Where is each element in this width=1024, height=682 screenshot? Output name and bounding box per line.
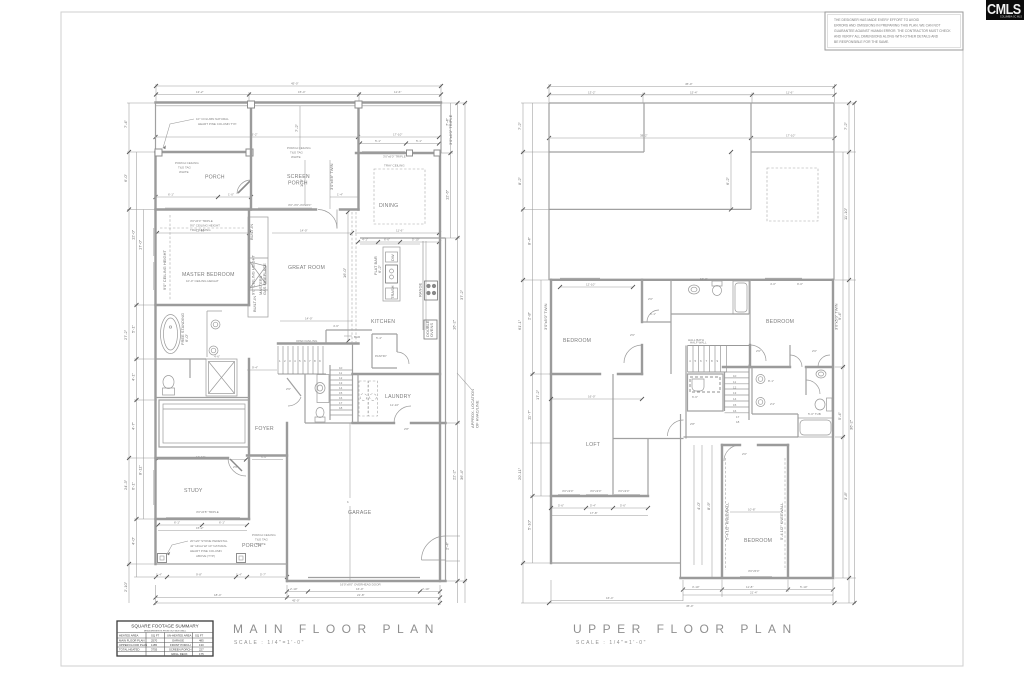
- svg-text:OPEN RAILING: OPEN RAILING: [296, 339, 318, 343]
- svg-text:13: 13: [339, 381, 343, 385]
- bar label: [326, 330, 372, 344]
- svg-text:17'-10": 17'-10": [786, 134, 795, 138]
- entry door arc: [318, 210, 337, 229]
- svg-text:4'-7": 4'-7": [131, 421, 136, 430]
- screen porch left wall: [248, 101, 255, 210]
- svg-text:15'-4": 15'-4": [298, 90, 306, 94]
- svg-text:20"x20" STONE PEDESTAL: 20"x20" STONE PEDESTAL: [190, 539, 228, 543]
- svg-text:2'-8": 2'-8": [527, 311, 532, 320]
- svg-text:11'-10": 11'-10": [843, 207, 848, 220]
- svg-text:61'-1": 61'-1": [517, 319, 522, 330]
- svg-text:7'-2": 7'-2": [517, 121, 522, 130]
- svg-text:AND VERIFY ALL DIMENSIONS ALON: AND VERIFY ALL DIMENSIONS ALONG WITH OTH…: [834, 35, 939, 39]
- screenporch vertical dims: [294, 106, 334, 209]
- svg-text:6'-1": 6'-1": [168, 193, 174, 197]
- svg-text:3'0"x6'8" TRIPLE: 3'0"x6'8" TRIPLE: [196, 510, 219, 514]
- garage bottom dims: [154, 585, 443, 605]
- svg-text:45'-0": 45'-0": [685, 82, 693, 86]
- svg-text:4'-0": 4'-0": [131, 536, 136, 545]
- svg-text:12: 12: [733, 385, 737, 389]
- svg-text:DW: DW: [390, 254, 395, 261]
- svg-text:130: 130: [199, 643, 204, 647]
- svg-text:15'-2": 15'-2": [196, 526, 204, 530]
- svg-text:3'0"x6'0" TRIPLE: 3'0"x6'0" TRIPLE: [190, 219, 213, 223]
- svg-text:3'0"x5'0" TWIN: 3'0"x5'0" TWIN: [543, 303, 548, 330]
- dim 38'-2" / 17'-10": [547, 134, 837, 141]
- svg-text:5'-10": 5'-10": [527, 519, 532, 530]
- svg-text:21'-8": 21'-8": [357, 593, 365, 597]
- svg-text:45'-0": 45'-0": [292, 599, 300, 603]
- svg-text:17: 17: [736, 415, 740, 419]
- screen porch right wall: [355, 101, 362, 210]
- svg-text:2'4": 2'4": [770, 402, 775, 406]
- svg-text:10: 10: [339, 366, 343, 370]
- svg-text:5'-4 1/2" KNEEWALL: 5'-4 1/2" KNEEWALL: [779, 502, 784, 540]
- bottom bedroom: [681, 445, 834, 578]
- svg-text:WHITE: WHITE: [179, 170, 189, 174]
- svg-text:MAIN FLOOR PLAN: MAIN FLOOR PLAN: [233, 622, 440, 636]
- svg-text:PORCH CEILING: PORCH CEILING: [175, 161, 199, 165]
- svg-text:11'-6": 11'-6": [786, 90, 793, 94]
- master bedroom bottom wall: [156, 304, 250, 306]
- master bedroom ceiling dashed: [160, 215, 256, 300]
- master bedroom right wall: [248, 210, 250, 456]
- powder room: [247, 366, 353, 424]
- svg-text:11: 11: [339, 371, 342, 375]
- svg-text:14: 14: [733, 397, 737, 401]
- svg-text:SCALE : 1/4"=1'-0": SCALE : 1/4"=1'-0": [576, 640, 647, 646]
- svg-text:SCALE : 1/4"=1'-0": SCALE : 1/4"=1'-0": [234, 640, 305, 646]
- svg-text:6'-0": 6'-0": [184, 333, 189, 342]
- svg-text:1'-0": 1'-0": [228, 193, 234, 197]
- upper floor plan title: [573, 622, 798, 646]
- svg-text:5'-1": 5'-1": [416, 139, 422, 143]
- roof outline: [549, 103, 835, 280]
- dining tray ceiling dashed: [374, 164, 425, 225]
- svg-text:OF HVAC/LINE: OF HVAC/LINE: [475, 400, 480, 428]
- kitchen island: [373, 247, 400, 301]
- window marks master bedroom left wall: [153, 228, 155, 256]
- svg-text:3'0"x5'0": 3'0"x5'0": [748, 569, 759, 573]
- pantry: [372, 334, 409, 368]
- svg-text:SCREEN PORCH: SCREEN PORCH: [169, 648, 192, 652]
- svg-text:PORCH CEILING: PORCH CEILING: [252, 533, 276, 537]
- svg-text:37'-2": 37'-2": [459, 289, 464, 300]
- kitchen/dining wall: [360, 237, 446, 239]
- svg-text:16'0"x8'0" OVERHEAD DOOR: 16'0"x8'0" OVERHEAD DOOR: [340, 583, 381, 587]
- svg-text:MASTER BEDROOM: MASTER BEDROOM: [182, 272, 235, 278]
- svg-text:16'-0": 16'-0": [588, 395, 596, 399]
- loft: [551, 442, 648, 496]
- svg-text:UPPER FLOOR PLAN: UPPER FLOOR PLAN: [573, 622, 798, 636]
- svg-text:12: 12: [339, 376, 343, 380]
- free standing tub: [161, 313, 190, 354]
- top right closet: [790, 345, 830, 367]
- svg-text:PORCH CEILING: PORCH CEILING: [287, 146, 311, 150]
- svg-text:8'-4": 8'-4": [527, 236, 532, 245]
- svg-text:PORCH: PORCH: [288, 181, 308, 187]
- svg-text:GREAT ROOM: GREAT ROOM: [288, 265, 325, 271]
- approx location hvac note: [457, 373, 480, 428]
- svg-text:BUILT-IN: BUILT-IN: [249, 224, 254, 240]
- svg-text:10'-0" CEILING HEIGHT: 10'-0" CEILING HEIGHT: [186, 279, 219, 283]
- stairs lower run: [330, 344, 353, 424]
- svg-text:17: 17: [339, 401, 343, 405]
- svg-text:175: 175: [199, 652, 204, 656]
- svg-text:17'-8": 17'-8": [590, 511, 598, 515]
- svg-text:GRILL DECK: GRILL DECK: [171, 652, 188, 656]
- svg-text:27'-2": 27'-2": [123, 329, 128, 340]
- bedroom 1 walls: [551, 280, 642, 374]
- svg-text:9'0" CEILING HEIGHT: 9'0" CEILING HEIGHT: [162, 249, 167, 290]
- svg-text:45'-0": 45'-0": [686, 604, 694, 608]
- svg-text:3'0"x6'0" TRIPLE: 3'0"x6'0" TRIPLE: [383, 155, 406, 159]
- svg-text:11: 11: [733, 380, 736, 384]
- svg-text:TRASH: TRASH: [390, 285, 395, 299]
- svg-text:LAUNDRY: LAUNDRY: [385, 394, 411, 400]
- svg-text:8'-9": 8'-9": [706, 501, 711, 510]
- svg-text:485: 485: [199, 639, 204, 643]
- svg-text:14'-0": 14'-0": [300, 229, 308, 233]
- great room vertical dim: [342, 210, 350, 343]
- svg-text:5'-0" TUB: 5'-0" TUB: [808, 412, 821, 416]
- top wall: [156, 101, 442, 103]
- svg-text:7'-2": 7'-2": [294, 123, 299, 132]
- svg-text:11'-10": 11'-10": [390, 403, 399, 407]
- porch ceiling note left: [175, 161, 199, 174]
- right vertical dim tiers: [835, 101, 857, 605]
- bedroom band top wall: [551, 278, 833, 280]
- svg-text:FRONT PORCH: FRONT PORCH: [170, 643, 190, 647]
- svg-text:SCREEN: SCREEN: [287, 174, 310, 180]
- svg-text:3'0"x3'0": 3'0"x3'0": [590, 489, 601, 493]
- svg-text:5'-1": 5'-1": [131, 324, 136, 333]
- svg-text:TRAY CEILING: TRAY CEILING: [190, 228, 211, 232]
- svg-text:9'-8": 9'-8": [196, 573, 202, 577]
- svg-text:9'0" CEILING HEIGHT: 9'0" CEILING HEIGHT: [190, 224, 220, 228]
- svg-text:22'-2": 22'-2": [452, 469, 457, 480]
- study bottom dims: [156, 521, 249, 531]
- svg-text:HEART PINE COLUMN TYP.: HEART PINE COLUMN TYP.: [198, 122, 237, 126]
- svg-text:LOFT: LOFT: [586, 442, 601, 448]
- stairs upper: [688, 341, 750, 373]
- svg-text:20'-11": 20'-11": [517, 467, 522, 480]
- svg-text:3'0"x3'0": 3'0"x3'0": [618, 489, 629, 493]
- svg-text:STUDY: STUDY: [184, 488, 203, 494]
- right outer wall: [832, 280, 834, 578]
- svg-text:7'-4": 7'-4": [123, 119, 128, 128]
- svg-text:6'-1": 6'-1": [219, 521, 225, 525]
- svg-text:45'-0": 45'-0": [291, 82, 299, 86]
- hall walls: [613, 346, 695, 497]
- outer walls: [156, 103, 446, 582]
- bedroom1 dims: [558, 283, 635, 290]
- svg-text:16: 16: [339, 396, 343, 400]
- svg-text:ABOVE (TYP): ABOVE (TYP): [196, 554, 215, 558]
- svg-text:15: 15: [733, 403, 737, 407]
- svg-text:6'-6": 6'-6": [692, 395, 698, 399]
- svg-text:4'-1": 4'-1": [131, 372, 136, 381]
- svg-text:2'8": 2'8": [690, 422, 695, 426]
- svg-text:2'-10": 2'-10": [123, 581, 128, 592]
- roof overhang lines: [156, 105, 442, 107]
- svg-text:TRAY CEILING: TRAY CEILING: [384, 164, 405, 168]
- svg-text:12'-0": 12'-0": [131, 229, 136, 240]
- built-in / fireplace block: [248, 217, 268, 317]
- svg-text:12'-6": 12'-6": [445, 189, 450, 200]
- toilet room right: [806, 367, 832, 411]
- svg-text:7'-2": 7'-2": [843, 121, 848, 130]
- study: [156, 458, 250, 519]
- svg-text:1'-4": 1'-4": [337, 193, 343, 197]
- svg-text:18: 18: [339, 406, 343, 410]
- left outer wall bedroom band: [550, 280, 552, 563]
- svg-text:HALL BATH: HALL BATH: [688, 338, 704, 342]
- svg-text:9'-4": 9'-4": [837, 311, 842, 320]
- svg-text:HEART PINE COLUMN: HEART PINE COLUMN: [190, 549, 222, 553]
- square footage summary table: [117, 621, 213, 656]
- svg-text:18'-4": 18'-4": [214, 593, 222, 597]
- svg-text:3'-8": 3'-8": [843, 491, 848, 500]
- svg-text:T&G TAG: T&G TAG: [178, 166, 192, 170]
- porch dim line y197: [154, 193, 359, 200]
- svg-text:10" COLUMN NATURAL: 10" COLUMN NATURAL: [196, 117, 229, 121]
- svg-text:SQUARE FOOTAGE SUMMARY: SQUARE FOOTAGE SUMMARY: [131, 624, 198, 629]
- svg-text:36'-4": 36'-4": [459, 469, 464, 480]
- svg-text:MEASUREMENTS FROM OUTSIDE WALL: MEASUREMENTS FROM OUTSIDE WALL: [144, 630, 187, 633]
- svg-text:3'0"x6'0" TRIPLE: 3'0"x6'0" TRIPLE: [448, 114, 453, 145]
- svg-text:COLUMBIA SC MLS: COLUMBIA SC MLS: [1000, 16, 1022, 19]
- svg-text:21'-4": 21'-4": [750, 591, 758, 595]
- svg-text:2'-10": 2'-10": [422, 587, 430, 591]
- svg-text:2'-10": 2'-10": [290, 587, 298, 591]
- dim 12'-10 / 14'-0 / 11'-6 y233: [155, 229, 441, 236]
- svg-text:4'-6": 4'-6": [333, 324, 339, 328]
- svg-text:BEDROOM: BEDROOM: [563, 338, 591, 344]
- master bath vanity: [207, 311, 222, 357]
- svg-text:5'-7": 5'-7": [260, 573, 266, 577]
- hall bath top: [671, 277, 803, 345]
- chimney chase dashed: [767, 168, 818, 221]
- stone pedestal note: [167, 539, 228, 558]
- dim 36'-2" / 17'-10": [154, 133, 442, 146]
- svg-text:SQ FT: SQ FT: [151, 634, 160, 638]
- right vertical dim tiers: [441, 101, 467, 603]
- svg-text:5'-4 1/2" KNEEWALL: 5'-4 1/2" KNEEWALL: [725, 502, 730, 540]
- svg-text:5'-6": 5'-6": [558, 504, 564, 508]
- svg-text:BE RESPONSIBLE FOR THE SAME.: BE RESPONSIBLE FOR THE SAME.: [834, 40, 889, 44]
- stairs down run: [725, 365, 750, 424]
- svg-text:2'0": 2'0": [812, 349, 817, 353]
- svg-text:15: 15: [339, 391, 343, 395]
- svg-text:3755: 3755: [151, 648, 158, 652]
- svg-text:2'6": 2'6": [233, 465, 238, 469]
- lower roof edge: [551, 414, 681, 578]
- small dims left of bottom bedroom: [694, 445, 712, 578]
- svg-text:BEDROOM: BEDROOM: [744, 538, 772, 544]
- tub lower bath: [798, 412, 833, 437]
- CMLS logo: [986, 0, 1024, 20]
- svg-text:16'-0": 16'-0": [342, 267, 347, 278]
- svg-text:2'8": 2'8": [404, 427, 409, 431]
- svg-text:6'-2": 6'-2": [725, 176, 730, 185]
- svg-text:17'-10": 17'-10": [393, 133, 402, 137]
- svg-text:GARAGE: GARAGE: [348, 510, 372, 516]
- garage center line: [347, 423, 350, 581]
- garage left wall: [286, 423, 288, 581]
- svg-text:14'-0": 14'-0": [305, 317, 313, 321]
- garage bottom wall: [287, 580, 446, 582]
- front porch columns: [158, 554, 246, 563]
- svg-text:8'-11": 8'-11": [138, 465, 143, 475]
- svg-text:RANGE: RANGE: [418, 282, 423, 297]
- svg-text:17'-0": 17'-0": [138, 239, 143, 250]
- svg-text:GAS FIREPLACE: GAS FIREPLACE: [262, 263, 267, 295]
- svg-text:3'-10": 3'-10": [692, 585, 700, 589]
- left vertical dim tiers: [123, 103, 157, 603]
- bedroom 2 right: [723, 345, 833, 367]
- svg-text:DINING: DINING: [379, 203, 398, 209]
- svg-text:10'-4": 10'-4": [700, 277, 708, 281]
- svg-text:5'-6": 5'-6": [620, 504, 626, 508]
- bath/toilet wall: [156, 359, 250, 398]
- svg-text:SQ FT: SQ FT: [195, 634, 204, 638]
- porch/screenporch door arc: [237, 180, 251, 194]
- svg-text:10'-8": 10'-8": [748, 508, 756, 512]
- svg-text:UN-HEATED AREA: UN-HEATED AREA: [167, 634, 191, 638]
- svg-text:17'-2": 17'-2": [535, 389, 540, 400]
- svg-text:5'-1": 5'-1": [375, 139, 381, 143]
- study top wall: [156, 456, 288, 477]
- porch top wall: [155, 149, 253, 156]
- svg-text:BUILT-IN: BUILT-IN: [252, 296, 257, 312]
- svg-text:9'0" CEILING HEIGHT: 9'0" CEILING HEIGHT: [251, 254, 256, 295]
- closets center: [642, 280, 671, 374]
- svg-text:2570: 2570: [151, 639, 158, 643]
- svg-text:THE DESIGNER HAS MADE EVERY EF: THE DESIGNER HAS MADE EVERY EFFORT TO AV…: [834, 18, 920, 22]
- front wall of house: [156, 208, 359, 210]
- svg-text:42" HIGH W/ 10" NATURAL: 42" HIGH W/ 10" NATURAL: [190, 544, 227, 548]
- svg-text:16'-0": 16'-0": [356, 587, 364, 591]
- svg-text:4'-0": 4'-0": [696, 501, 701, 510]
- svg-text:3'0"-3'6"-3'0"x6'0": 3'0"-3'6"-3'0"x6'0": [288, 203, 311, 207]
- svg-text:GARAGE: GARAGE: [172, 639, 184, 643]
- svg-text:UPPER FLOOR PLAN: UPPER FLOOR PLAN: [119, 643, 147, 647]
- svg-text:2'6": 2'6": [630, 333, 635, 337]
- stairs main: [278, 339, 359, 374]
- interior vertical dim 6'-2": [725, 150, 733, 211]
- porch ceiling note bottom: [252, 533, 276, 546]
- svg-text:16'-2": 16'-2": [452, 319, 457, 330]
- svg-text:11'-7": 11'-7": [527, 410, 532, 420]
- left outer wall: [155, 103, 157, 153]
- svg-text:16: 16: [733, 409, 737, 413]
- svg-text:10: 10: [733, 374, 737, 378]
- svg-text:2'0": 2'0": [648, 297, 653, 301]
- svg-text:6'-0": 6'-0": [123, 173, 128, 182]
- svg-text:KITCHEN: KITCHEN: [371, 319, 395, 325]
- svg-text:15'-4": 15'-4": [690, 90, 698, 94]
- left vertical dim tiers: [517, 103, 551, 603]
- svg-text:6'-1": 6'-1": [131, 481, 136, 490]
- svg-text:11'-6": 11'-6": [396, 229, 403, 233]
- svg-text:2'6": 2'6": [286, 387, 291, 391]
- svg-text:5'-4": 5'-4": [376, 336, 382, 340]
- column note top left: [163, 117, 237, 149]
- disclaimer note box: [825, 12, 963, 50]
- svg-text:5'-4": 5'-4": [590, 504, 596, 508]
- svg-text:PORCH: PORCH: [205, 175, 225, 181]
- svg-text:4'-6": 4'-6": [214, 355, 220, 359]
- svg-text:3'0"x3'0": 3'0"x3'0": [562, 489, 573, 493]
- svg-text:14: 14: [339, 386, 343, 390]
- svg-text:1185: 1185: [151, 643, 157, 647]
- svg-text:HEATED AREA: HEATED AREA: [119, 634, 139, 638]
- svg-text:227: 227: [199, 648, 204, 652]
- svg-text:WHITE: WHITE: [291, 155, 301, 159]
- svg-text:TOTAL HEATED: TOTAL HEATED: [119, 648, 140, 652]
- master closet: [159, 400, 249, 447]
- svg-text:3'0"x6'8" TWIN: 3'0"x6'8" TWIN: [329, 163, 334, 190]
- svg-text:4'-0": 4'-0": [770, 282, 776, 286]
- svg-text:11'-6": 11'-6": [394, 90, 401, 94]
- svg-text:11'-8": 11'-8": [746, 585, 753, 589]
- study dims y459: [155, 455, 283, 462]
- svg-text:T&G TAG: T&G TAG: [290, 151, 304, 155]
- svg-text:5'-1": 5'-1": [650, 312, 656, 316]
- svg-text:5'-10": 5'-10": [800, 585, 808, 589]
- svg-text:36'-2": 36'-2": [849, 419, 854, 430]
- bottom dims: [547, 580, 837, 608]
- kitchen back counter: [360, 243, 420, 245]
- top dimension line 45'-0": [154, 82, 443, 103]
- svg-text:13'-2": 13'-2": [588, 90, 596, 94]
- svg-text:GUARANTEE AGAINST HUMAN ERROR.: GUARANTEE AGAINST HUMAN ERROR. THE CONTR…: [834, 29, 951, 33]
- svg-text:16'-4": 16'-4": [606, 596, 614, 600]
- svg-text:8'-2": 8'-2": [517, 176, 522, 185]
- svg-text:ERRORS AND OMISSIONS IN PREPAR: ERRORS AND OMISSIONS IN PREPARING THIS P…: [834, 24, 941, 28]
- right outer wall: [440, 103, 442, 154]
- hall bath lower: [684, 367, 799, 437]
- svg-text:OVENS: OVENS: [429, 323, 434, 337]
- dining top wall: [356, 150, 440, 156]
- porch front edge: [156, 563, 288, 565]
- svg-text:T&G TAG: T&G TAG: [255, 538, 269, 542]
- linen closet: [688, 374, 724, 411]
- svg-text:18: 18: [736, 420, 740, 424]
- svg-text:6'-2": 6'-2": [377, 264, 382, 273]
- svg-text:13'-2": 13'-2": [196, 90, 204, 94]
- kitchen dim y242: [356, 238, 441, 245]
- great room lower dim y321: [280, 317, 352, 329]
- toilet: [163, 376, 175, 396]
- overhead door recess: [308, 578, 420, 587]
- svg-text:5'-4": 5'-4": [837, 411, 842, 420]
- svg-text:PANTRY: PANTRY: [375, 354, 387, 358]
- top dimension 45'-0": [547, 82, 837, 103]
- svg-text:FOYER: FOYER: [255, 426, 274, 432]
- porch door leaf: [238, 181, 250, 193]
- svg-text:BEDROOM: BEDROOM: [766, 319, 794, 325]
- main floor plan title: [233, 622, 440, 646]
- porch bottom dims y577: [154, 573, 289, 580]
- screen porch ceiling note: [287, 146, 311, 159]
- svg-text:6'-1": 6'-1": [174, 521, 180, 525]
- svg-text:BAR: BAR: [354, 335, 361, 339]
- loft dims: [549, 395, 650, 516]
- svg-text:2'0": 2'0": [742, 452, 747, 456]
- svg-text:8'-1": 8'-1": [768, 379, 774, 383]
